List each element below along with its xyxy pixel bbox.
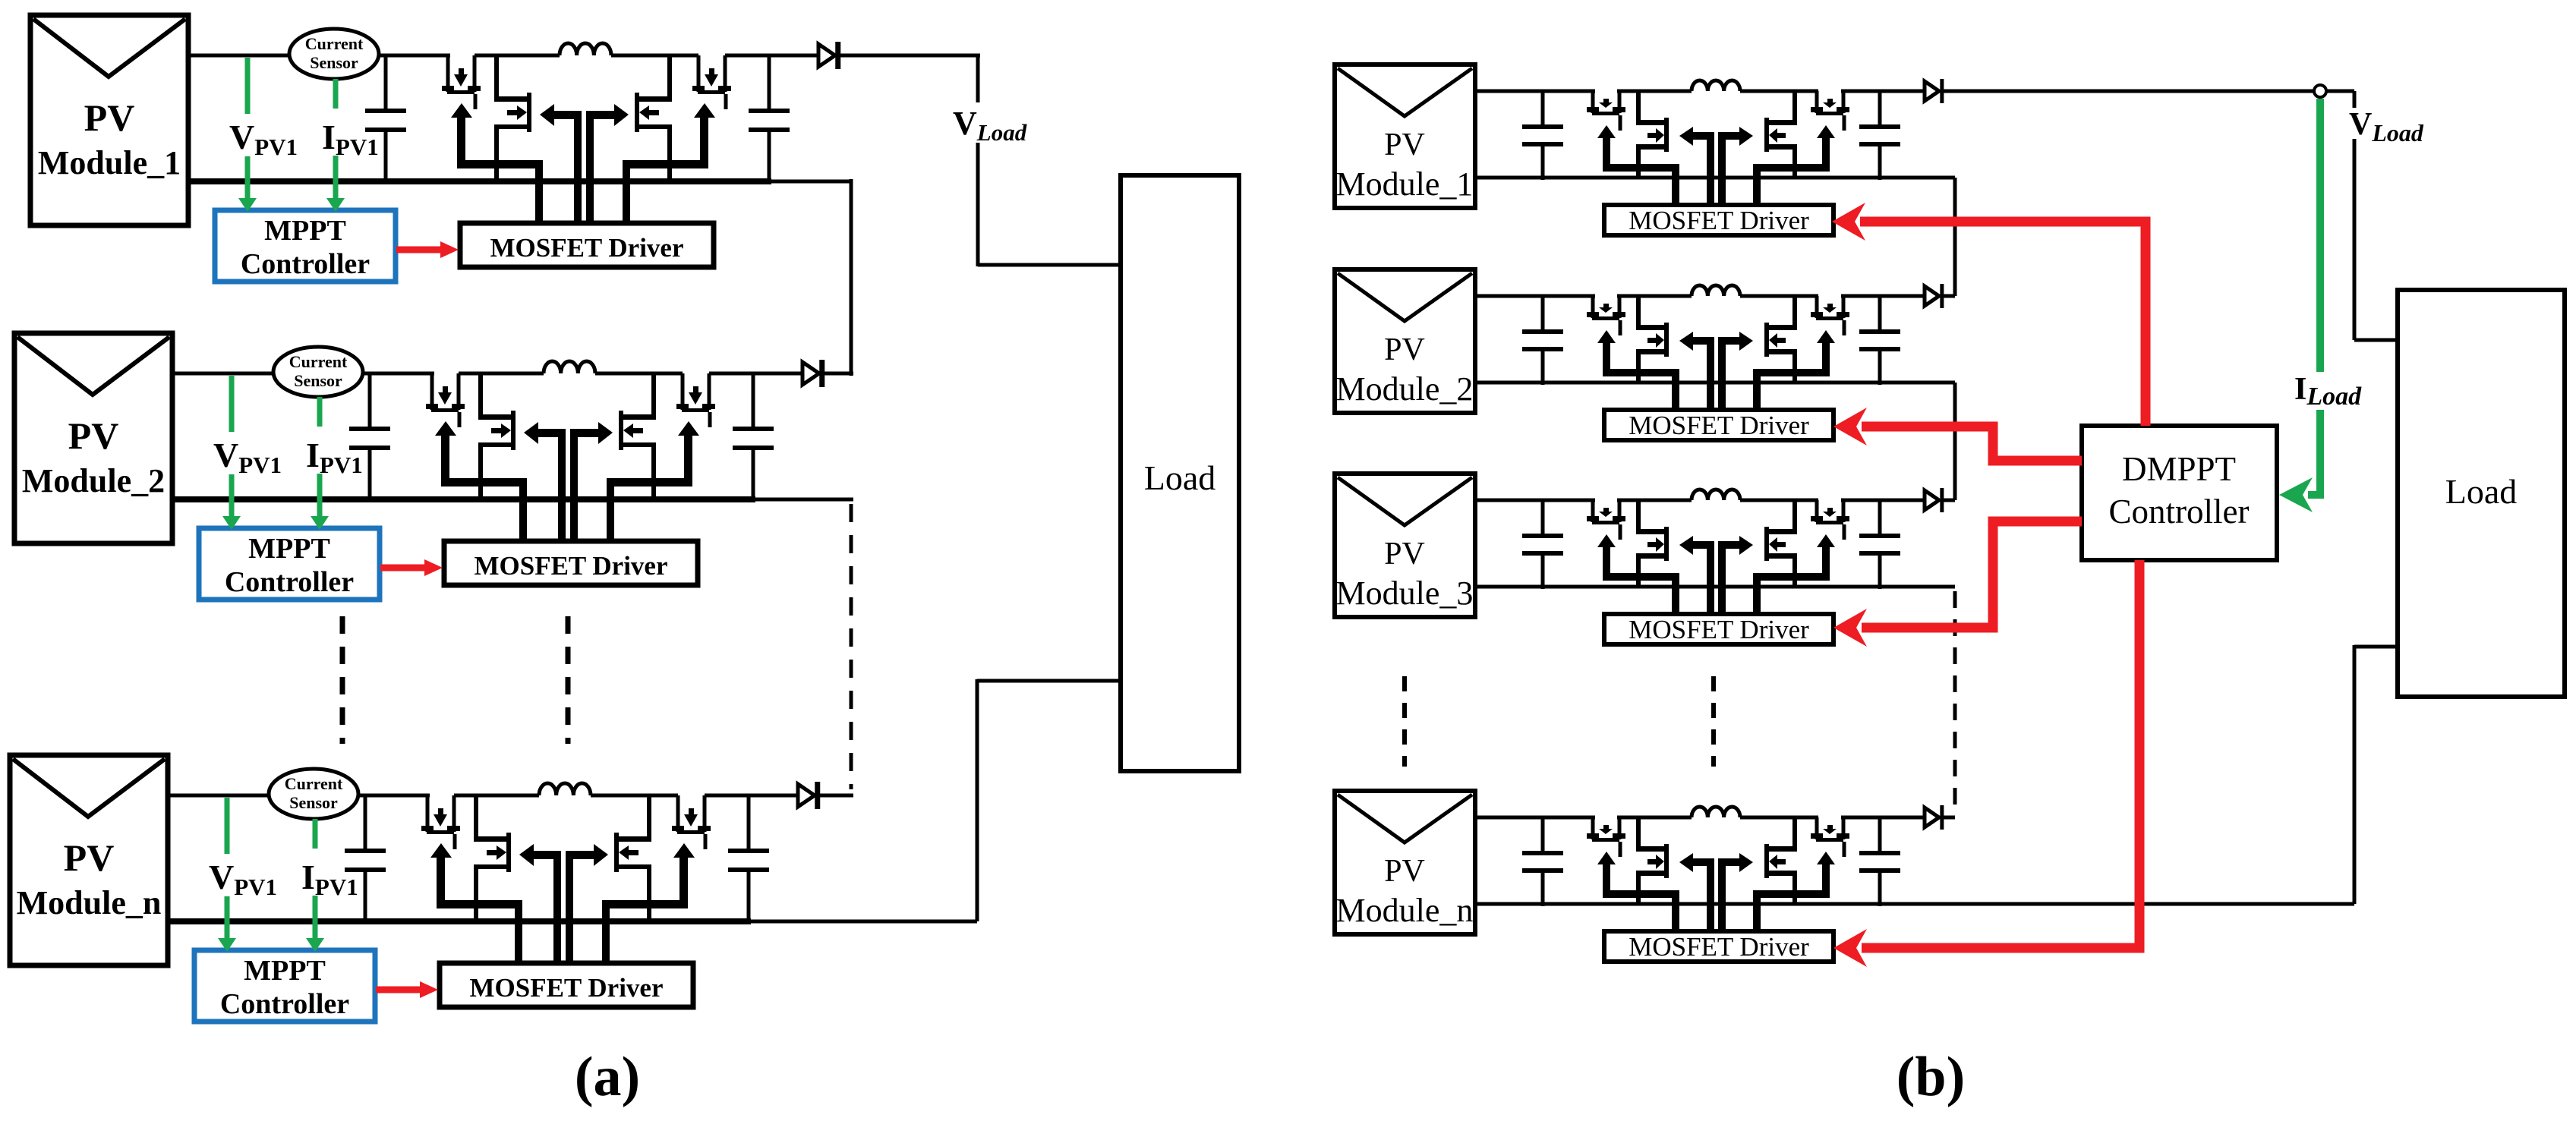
- svg-text:Module_n: Module_n: [17, 884, 162, 921]
- wire node to Vload: [2326, 90, 2354, 93]
- green Iload arrow: [2316, 99, 2324, 372]
- dashed separator right (a): [566, 616, 571, 744]
- wire row n diode to bus: [817, 794, 853, 798]
- wire row n bottom to load: [831, 920, 977, 924]
- wire row1 output to Vload: [837, 54, 980, 58]
- red feed row1: [1860, 222, 2146, 426]
- dashed separator left (a): [340, 616, 345, 744]
- bus row2 to row3: [1953, 383, 1957, 500]
- svg-text:Controller: Controller: [2109, 493, 2250, 531]
- PV converter row 2 (a): [14, 333, 835, 600]
- svg-text:Module_3: Module_3: [1336, 575, 1474, 612]
- PV converter row 3 (b): [1335, 474, 1955, 644]
- svg-text:Module_2: Module_2: [1336, 370, 1474, 408]
- DMPPT controller box: [2082, 426, 2277, 560]
- PV converter row 1 (b): [1335, 65, 1955, 235]
- wire row n bottom to load: [1955, 902, 2354, 906]
- PV converter row n (a): [10, 755, 831, 1022]
- svg-text:Module_2: Module_2: [22, 462, 165, 499]
- svg-text:(b): (b): [1897, 1046, 1965, 1108]
- svg-text:(a): (a): [575, 1046, 640, 1108]
- wire row2 bottom to bus: [835, 498, 853, 502]
- PV converter row n (b): [1335, 791, 1955, 962]
- red feed row3: [1862, 521, 2082, 628]
- dashed separator left (b): [1402, 676, 1407, 767]
- PV converter row 1 (a): [30, 15, 851, 282]
- svg-text:Load: Load: [2445, 472, 2518, 511]
- dashed bus row3 to row n: [1953, 591, 1957, 813]
- svg-text:Module_1: Module_1: [38, 144, 181, 181]
- svg-text:Module_1: Module_1: [1336, 165, 1474, 203]
- red feed row n: [1862, 560, 2139, 948]
- wire row1 output to node: [1941, 90, 2314, 93]
- red feed row2: [1862, 427, 2082, 461]
- svg-text:Load: Load: [1144, 458, 1216, 497]
- load box (b): [2398, 290, 2565, 697]
- wire row1 bottom to row2 diode: [850, 179, 853, 376]
- bus row1 to row2: [1953, 178, 1957, 296]
- dashed separator right (b): [1711, 676, 1716, 767]
- dashed bus wire: [850, 504, 853, 789]
- PV converter row 2 (b): [1335, 269, 1955, 440]
- svg-text:Module_n: Module_n: [1336, 892, 1474, 929]
- svg-text:DMPPT: DMPPT: [2122, 450, 2236, 488]
- load box (a): [1121, 175, 1239, 771]
- node circle: [2314, 85, 2326, 97]
